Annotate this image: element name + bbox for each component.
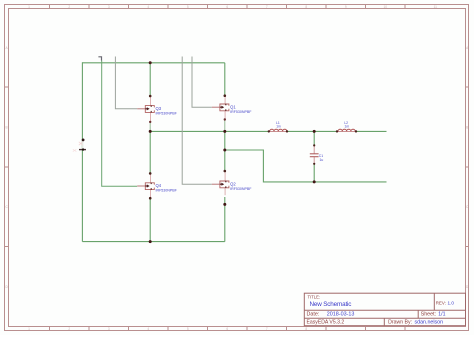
wire Q4 gate feed <box>102 61 138 187</box>
junction node mid rail / Q1-Q2 <box>223 130 226 133</box>
svg-text:3: 3 <box>108 5 110 9</box>
junction node mid rail / Q3-Q4 <box>149 130 152 133</box>
svg-text:2: 2 <box>68 5 70 9</box>
transistor Q2 <box>212 171 252 195</box>
svg-text:New Schematic: New Schematic <box>310 301 352 308</box>
svg-text:5: 5 <box>187 5 189 9</box>
svg-text:REV:: REV: <box>436 301 446 306</box>
pin dot Q1 drain <box>224 94 227 97</box>
pin dot Q1 source <box>224 118 226 120</box>
svg-text:IRF530NPBF: IRF530NPBF <box>230 187 252 191</box>
wire mid rail between inductors <box>287 130 337 132</box>
pin dot Q3 source <box>149 121 151 123</box>
svg-text:1/1: 1/1 <box>438 312 445 318</box>
svg-text:Q2: Q2 <box>230 181 236 186</box>
wire Q3 gate feed <box>115 57 137 109</box>
pin dot Q4 drain <box>149 172 152 175</box>
wire staircase output <box>225 150 387 182</box>
junction node bottom rail / Q4 <box>149 240 152 243</box>
svg-text:Date:: Date: <box>307 312 320 318</box>
inductor L2 <box>336 121 357 132</box>
wire Q1 source to mid node <box>224 120 226 132</box>
svg-text:8: 8 <box>305 5 307 9</box>
pin dot Q2 drain <box>224 170 227 173</box>
svg-text:10: 10 <box>384 5 388 9</box>
title block <box>304 293 465 326</box>
wire Q3 drain branch <box>149 63 151 96</box>
wire Q2 source branch <box>224 197 226 242</box>
svg-text:Q4: Q4 <box>156 183 162 188</box>
wire C1 bottom branch <box>313 164 315 182</box>
wire bottom rail <box>82 241 224 243</box>
transistor Q3 <box>137 96 177 122</box>
junction node C1 bottom <box>313 180 316 183</box>
svg-text:1: 1 <box>28 327 30 331</box>
svg-text:6: 6 <box>226 327 228 331</box>
inductor L1 <box>268 121 289 132</box>
pin dot Q4 source <box>149 197 152 200</box>
svg-text:EasyEDA V5.3.2: EasyEDA V5.3.2 <box>307 320 345 326</box>
svg-text:2018-03-13: 2018-03-13 <box>327 312 355 318</box>
svg-text:Drawn By:: Drawn By: <box>388 320 412 326</box>
svg-text:TITLE:: TITLE: <box>308 295 321 300</box>
svg-text:3: 3 <box>108 327 110 331</box>
svg-text:1: 1 <box>28 5 30 9</box>
voltage source on left rail <box>73 139 86 152</box>
junction node staircase tap <box>223 149 226 152</box>
svg-text:9: 9 <box>345 5 347 9</box>
svg-text:11: 11 <box>434 5 438 9</box>
wire Q2 gate feed <box>182 57 212 185</box>
junction node C1 top <box>313 130 316 133</box>
wire top rail <box>82 62 224 64</box>
transistor Q1 <box>212 96 252 120</box>
wire Q1 gate feed <box>192 57 212 108</box>
svg-text:Q1: Q1 <box>230 104 236 109</box>
capacitor C1 <box>310 144 324 165</box>
svg-text:4: 4 <box>147 327 149 331</box>
svg-text:7: 7 <box>266 327 268 331</box>
transistor Q4 <box>137 173 177 198</box>
svg-text:5: 5 <box>187 327 189 331</box>
svg-text:1m: 1m <box>276 125 281 129</box>
wire mid rail right segment <box>356 130 387 132</box>
svg-text:Sheet:: Sheet: <box>421 312 437 318</box>
net flag on Q4 gate wire <box>98 57 101 61</box>
wire Q3 source to mid node <box>149 122 151 131</box>
svg-text:IRF530NPBF: IRF530NPBF <box>156 189 178 193</box>
pin dot Q2 source junction <box>223 203 226 206</box>
svg-text:B: B <box>466 125 468 129</box>
svg-text:1m: 1m <box>345 125 350 129</box>
wire Q1 drain branch <box>224 63 226 96</box>
wire mid rail left segment <box>150 130 269 132</box>
svg-text:8: 8 <box>305 327 307 331</box>
wire Q1-Q2 mid link <box>224 131 226 171</box>
pin dot Q3 drain <box>149 95 152 98</box>
svg-text:2: 2 <box>68 327 70 331</box>
wire Q4 drain branch <box>149 131 151 173</box>
junction node top rail / Q3 <box>149 61 152 64</box>
svg-text:IRF530NPBF: IRF530NPBF <box>156 111 178 115</box>
svg-text:1.0: 1.0 <box>448 301 455 306</box>
svg-text:6: 6 <box>226 5 228 9</box>
svg-text:4: 4 <box>147 5 149 9</box>
wire C1 top branch <box>313 131 315 145</box>
wire left rail <box>81 62 83 241</box>
svg-text:B: B <box>6 125 8 129</box>
svg-text:IRF530NPBF: IRF530NPBF <box>230 110 252 114</box>
svg-text:1u: 1u <box>320 158 324 162</box>
svg-text:sdan.nelson: sdan.nelson <box>415 320 444 326</box>
wire Q4 source branch <box>149 198 151 241</box>
svg-text:7: 7 <box>266 5 268 9</box>
svg-text:Q3: Q3 <box>156 106 162 111</box>
